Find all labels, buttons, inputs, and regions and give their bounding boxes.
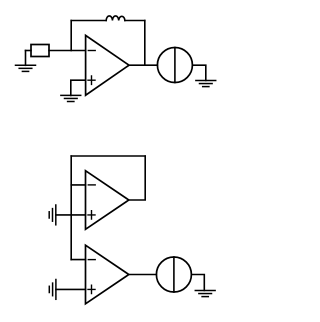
wire resistor R1 to op-amp U1 inverting input (node N1 at x=71.2)	[49, 50, 86, 52]
op-amp U2	[86, 171, 129, 230]
wire op-amp U1 non-inverting input	[71, 80, 86, 95]
ground G5 (sideways, op-amp U3 + input)	[49, 280, 56, 300]
wire op-amp U3 non-inverting input to sideways ground G5	[56, 288, 86, 290]
op-amp U2 plus marker	[88, 211, 95, 219]
op-amp U2 minus marker	[88, 184, 95, 186]
ground G3 (right)	[196, 81, 216, 87]
ground G2 (op-amp U1 + input)	[61, 95, 81, 101]
wire feedback top right segment	[125, 20, 145, 22]
wire rail corner to op-amp U3 inverting input	[71, 259, 85, 261]
inductor L1	[106, 16, 125, 21]
resistor R1	[31, 45, 49, 57]
wire feedback top left segment	[71, 20, 106, 22]
wire left rail vertical (feedback to U2 and U3 inverting input)	[70, 156, 72, 260]
ground G1 (input side)	[16, 51, 36, 72]
wire op-amp U2 output feedback (right then up)	[129, 156, 145, 200]
current source I1	[157, 48, 192, 83]
current source I2	[156, 257, 191, 292]
wire op-amp U2 inverting input stub	[71, 184, 85, 186]
op-amp U1 minus marker	[88, 50, 95, 52]
op-amp U1	[86, 35, 129, 95]
wire ground to resistor R1	[26, 50, 32, 52]
op-amp U3	[86, 245, 129, 304]
wire current source I1 to ground G3	[192, 65, 205, 80]
wire op-amp U3 output to current source I2	[129, 274, 157, 276]
wire feedback top horizontal (op-amp U2)	[71, 155, 145, 157]
op-amp U3 plus marker	[88, 285, 95, 293]
wire op-amp U1 output to current source I1	[129, 64, 157, 66]
ground G4 (sideways, op-amp U2 + input)	[49, 205, 56, 225]
wire current source I2 to ground G6	[191, 275, 204, 291]
wire feedback right vertical down to output node	[144, 21, 146, 66]
wire feedback left vertical (node N1 up)	[70, 21, 72, 51]
op-amp U1 plus marker	[88, 76, 95, 84]
op-amp U3 minus marker	[88, 259, 95, 261]
ground G6 (bottom right)	[195, 291, 215, 297]
wire op-amp U2 non-inverting input to sideways ground G4	[56, 214, 86, 216]
